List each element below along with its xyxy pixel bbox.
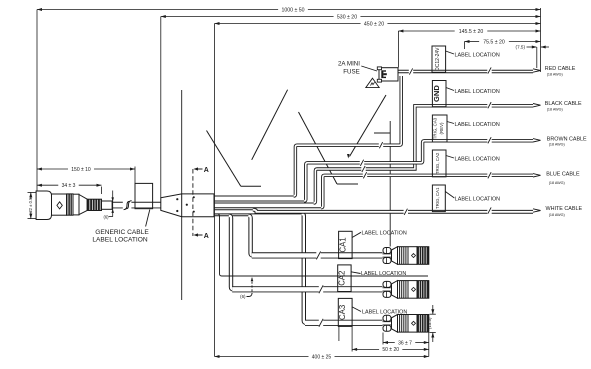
break red wire near end [487,67,491,74]
extension line CA1 connector vertical [389,121,391,247]
break white wire [404,208,408,215]
break red wire [379,142,383,149]
label DC12-24V [432,46,446,72]
dimension 400 +-25 [215,356,309,358]
dimension 75.5 +-20 [465,41,480,43]
break black wire near end [487,102,491,109]
extension line splitter exit / 450 and 400 dims [214,24,216,357]
leader CA1 label [352,232,361,237]
break main trunk cable [123,200,132,211]
svg-text:TRIG, CA3: TRIG, CA3 [433,117,438,139]
svg-text:150 ± 10: 150 ± 10 [71,167,91,173]
extension line red insulation end (7.5) [536,47,538,68]
leader line jacket callout 2 [252,90,288,160]
section arrow A top [195,168,203,170]
svg-text:LABEL LOCATION: LABEL LOCATION [361,271,406,277]
svg-text:LABEL LOCATION: LABEL LOCATION [362,309,407,315]
svg-text:36 ± 7: 36 ± 7 [398,340,412,346]
wire blue TRIG CA2 from splitter [321,175,533,207]
label TRIG CA2 [432,150,446,177]
wire white TRIG CA1 [253,210,533,212]
svg-text:CA1: CA1 [338,237,347,252]
extension line splitter seam vertical lower [181,217,183,300]
dimension 22 +-0.5 vertical [28,191,37,193]
splitter rivet dots [176,198,178,200]
svg-text:TRIG, CA1: TRIG, CA1 [435,187,440,209]
wire fan out of splitter [214,195,294,197]
break CA3 wire [319,319,323,326]
leader CA3 label [352,307,361,312]
svg-text:(18 AWG): (18 AWG) [549,181,565,185]
svg-text:530 ± 20: 530 ± 20 [337,14,357,20]
section line A-A [192,169,194,236]
svg-text:400 ± 25: 400 ± 25 [312,354,332,360]
connector P1 polarity diamond [57,202,62,209]
section arrow A bottom [195,234,203,236]
dimension 34 +-3 [37,184,58,186]
label TRIG CA1 [432,185,445,212]
leader fuse note [361,66,377,71]
wire CA2 branch descent [229,216,233,290]
dimension 36 +-7 [383,342,395,344]
dimension 1000 +-50 [37,9,278,11]
wire brown TRIG CA3 [304,141,533,201]
svg-text:50 ± 20: 50 ± 20 [382,347,399,353]
svg-text:2A MINI: 2A MINI [338,61,360,68]
wire CA1 branch run [252,252,383,258]
svg-text:A: A [204,233,209,240]
stripped end brown cable [533,139,541,142]
leader CA2 label [351,272,360,274]
wire black GND from splitter to GND label [314,106,533,203]
svg-text:A: A [204,167,209,174]
extension line CA3 label left edge [338,327,340,342]
break blue wire near end [487,172,491,179]
label CA1 [339,231,353,258]
break brown wire [360,159,364,166]
extension line left connector / 1000 dim [36,10,38,191]
dimension 50 +-20 [352,348,379,350]
svg-text:(6): (6) [103,214,109,219]
svg-text:75.5 ± 20: 75.5 ± 20 [483,39,505,45]
splitter seam [181,194,183,217]
extension line bottom dims right / CA3 connector end [428,333,430,357]
dimension (6) bottom wire callout [251,278,253,294]
leader TRIG CA3 label [447,122,454,124]
dimension (6) neck [112,191,114,217]
svg-text:22 ± 0.5: 22 ± 0.5 [28,197,33,213]
splitter transition body [161,194,214,217]
svg-text:(6): (6) [240,294,246,299]
extension line 36 dim left / CA3 connector [382,333,384,345]
connector P1 neck [102,201,113,209]
warning glyph [371,82,375,85]
break blue wire [363,172,367,179]
extension line splitter seam vertical [181,90,183,194]
wire CA2 label leader line [214,214,428,276]
extension line 50 dim left / CA3 label [351,327,353,352]
svg-text:GENERIC CABLE: GENERIC CABLE [95,229,149,236]
svg-text:LABEL LOCATION: LABEL LOCATION [455,122,500,128]
wire red from fuse to end [398,70,533,73]
svg-text:(18 AWG): (18 AWG) [547,73,563,77]
svg-text:GND: GND [432,85,441,102]
leader TRIG CA1 label [445,192,454,199]
fuse F1 2A mini [379,68,398,81]
leader tail 1 [241,185,261,187]
stripped end red cable [533,69,541,72]
label GND [432,81,446,107]
svg-text:LABEL LOCATION: LABEL LOCATION [362,230,407,236]
wire CA2 branch run [232,286,382,292]
warning triangle [366,78,379,87]
svg-text:DC12-24V: DC12-24V [435,47,441,71]
svg-text:BLUE CABLE: BLUE CABLE [546,172,580,178]
generic cable label sleeve [135,183,153,208]
extension line 75.5 dim left end [464,42,466,50]
extension line 34 dim right [101,187,103,195]
leader TRIG CA2 label [446,156,454,159]
svg-text:(18 AWG): (18 AWG) [549,142,565,146]
label CA2 [338,265,351,292]
svg-text:LABEL LOCATION: LABEL LOCATION [455,89,500,95]
arrowhead bundle leader [347,154,350,159]
svg-text:CA2: CA2 [337,271,346,286]
svg-text:TRIG, CA2: TRIG, CA2 [435,152,440,174]
dimension 530 +-20 [161,16,334,18]
connector P1 mid section [73,194,79,215]
connector P1 ridge block [67,194,74,215]
extension line 150 dim right / sleeve [134,167,136,184]
svg-text:FUSE: FUSE [343,69,360,76]
svg-text:LABEL LOCATION: LABEL LOCATION [455,197,500,203]
dimension (15.5) vertical CA3 [430,313,436,315]
svg-text:CA3: CA3 [338,305,347,320]
leader line from fuse warning to bundle [350,95,387,157]
leader line jacket callout 1 [207,131,241,187]
connector CA2 plug [383,281,391,287]
break black wire [361,166,365,173]
dimension 145.5 +-20 [398,30,454,32]
wire CA3 branch descent [302,214,306,323]
svg-text:(15.5): (15.5) [427,317,432,329]
stripped end black cable [533,104,541,107]
label CA3 [338,298,352,326]
svg-text:34 ± 3: 34 ± 3 [62,183,76,189]
extension line splitter entry / 530 dim [160,17,162,198]
stripped end white cable [533,209,541,212]
wire red DC from splitter to fuse [294,76,402,196]
extension line cable ends right [540,8,542,72]
svg-text:450 ± 20: 450 ± 20 [364,21,384,27]
wire CA3 branch run [305,320,383,326]
dimension 150 +-10 [37,168,68,170]
leader DC label [446,51,454,54]
svg-text:LABEL LOCATION: LABEL LOCATION [455,53,500,59]
label TRIG CA3 REV [432,115,447,142]
svg-text:(7.5): (7.5) [516,45,526,50]
svg-text:RED CABLE: RED CABLE [545,66,576,72]
svg-text:BLACK CABLE: BLACK CABLE [545,101,582,107]
leader tail at CA1 vertical [374,132,390,134]
break CA1 wire [316,252,320,259]
svg-text:(18 AWG): (18 AWG) [549,213,565,217]
connector P1 body [52,194,67,215]
leader GND label [446,88,454,91]
connector CA1 plug [383,248,391,254]
svg-text:1000 ± 50: 1000 ± 50 [281,7,304,13]
svg-text:LABEL LOCATION: LABEL LOCATION [92,236,148,243]
break CA2 wire [319,286,323,293]
main trunk cable [111,202,161,209]
svg-text:WHITE CABLE: WHITE CABLE [546,206,583,212]
wire CA1 branch descent [248,216,252,256]
svg-text:145.5 ± 20: 145.5 ± 20 [459,29,484,35]
connector P1 rear cap [36,191,51,220]
break white wire near end [487,207,491,214]
dimension 450 +-20 [215,23,361,25]
leader line jacket callout 3 [299,112,338,184]
svg-text:(REV): (REV) [439,122,444,134]
stripped end blue cable [533,174,541,177]
connector P1 knurl block [87,199,101,210]
leader generic cable label [146,210,150,227]
leader tail 3 [337,183,358,185]
svg-text:LABEL LOCATION: LABEL LOCATION [455,157,500,163]
break red wire after fuse [409,68,413,75]
break brown wire near end [487,137,491,144]
svg-text:(18 AWG): (18 AWG) [547,107,563,111]
connector P1 taper [79,195,87,215]
connector CA3 plug [383,315,391,321]
extension line fuse / 145.5 dim [397,31,399,68]
